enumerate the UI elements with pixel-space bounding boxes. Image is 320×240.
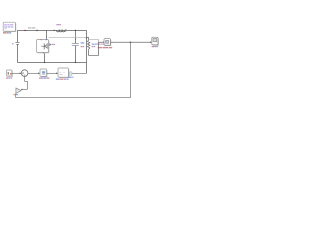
powergui label [3, 32, 11, 33]
inductor arrow [65, 30, 67, 32]
constant block K2 [7, 70, 13, 76]
wire drop to switch [45, 30, 47, 39]
arrowhead into scope [150, 41, 152, 43]
wire sum to PID [28, 72, 39, 74]
arrowhead red on top rail [25, 30, 27, 32]
label right of switch [52, 44, 55, 45]
wire cap top [74, 30, 76, 43]
voltage measurement VM1 [103, 39, 111, 46]
PID block U3 [40, 69, 47, 77]
gain K1 triangle [16, 88, 21, 93]
red current arrow [75, 39, 77, 40]
powergui block U0 [3, 22, 16, 31]
wire right vertical [85, 30, 87, 73]
wire cap bottom [74, 46, 76, 63]
pin m port arrow [49, 44, 51, 46]
capacitor label [81, 42, 85, 47]
wire left leg lower [16, 45, 18, 63]
VM input label [95, 44, 105, 45]
wire PID to PWM [47, 72, 57, 74]
wire into measurement [98, 41, 102, 43]
node B top of capacitor [75, 30, 77, 32]
wire bottom rail [17, 61, 86, 63]
wire gate line light [49, 37, 87, 39]
wire gate from PWM [69, 72, 87, 74]
arrowhead into PWM [56, 72, 58, 74]
transistor Q1 (IGBT block) [37, 40, 49, 53]
wire feedback bottom [16, 97, 131, 99]
VM label [98, 47, 112, 48]
arrowhead at gain [21, 89, 23, 91]
DC voltage source B1 [15, 43, 19, 45]
label above rail [28, 27, 36, 28]
wire feedback down [129, 42, 131, 97]
battery label [12, 43, 13, 44]
wire measurement to scope [110, 41, 149, 43]
wire stub into gain [15, 94, 17, 98]
resistor label [92, 44, 96, 48]
label above inductor [56, 24, 59, 25]
capacitor C1 [72, 44, 79, 46]
sum S1 [21, 70, 28, 77]
wire switch to bottom rail [44, 53, 46, 62]
wire constant to sum [12, 72, 20, 74]
node switch-s junction [44, 62, 46, 64]
node inductor left [54, 30, 55, 31]
resistor R1 load [86, 38, 98, 56]
pin g red tick [40, 39, 43, 40]
wire left leg upper [16, 30, 18, 42]
node A [36, 30, 38, 32]
scope U2 [152, 37, 159, 45]
node D feedback tap [130, 42, 132, 44]
PWM label [56, 79, 69, 80]
wire top rail [17, 29, 86, 31]
constant label [6, 77, 12, 78]
arrowhead into sum [20, 72, 22, 74]
converter label [69, 77, 74, 78]
wire gain to sum [21, 77, 27, 90]
node C [86, 37, 88, 39]
gain label [13, 94, 18, 95]
PWM generator U4 [58, 68, 69, 78]
node cap bottom [75, 62, 77, 64]
arrowhead into PID [38, 72, 40, 74]
pin s blue tick [42, 52, 45, 53]
scope label [152, 46, 158, 47]
converter tag after PWM [69, 72, 72, 75]
inductor L1 [57, 30, 65, 32]
PID label [39, 78, 49, 79]
